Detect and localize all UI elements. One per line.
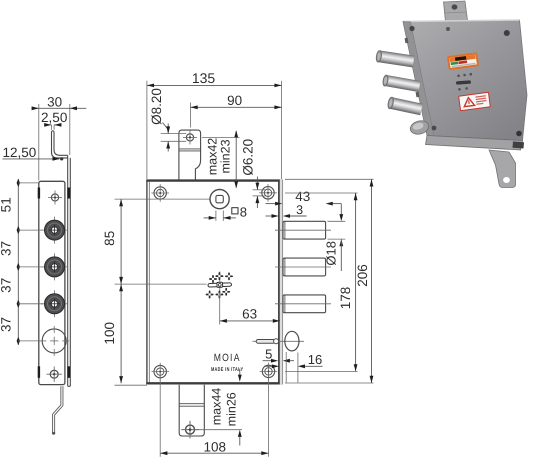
svg-text:135: 135: [192, 70, 216, 86]
svg-text:8: 8: [240, 205, 247, 220]
svg-text:12,50: 12,50: [3, 145, 37, 160]
svg-text:16: 16: [308, 352, 322, 367]
svg-text:min26: min26: [224, 392, 238, 426]
svg-text:Ø6.20: Ø6.20: [240, 139, 255, 176]
svg-text:37: 37: [0, 317, 13, 332]
svg-text:178: 178: [338, 287, 353, 310]
svg-text:2,50: 2,50: [41, 110, 67, 125]
svg-text:37: 37: [0, 278, 13, 293]
svg-text:Ø8.20: Ø8.20: [149, 88, 164, 125]
svg-text:Ø18: Ø18: [324, 241, 339, 266]
svg-text:85: 85: [102, 231, 117, 246]
svg-text:min23: min23: [218, 139, 232, 173]
svg-text:max42: max42: [205, 138, 219, 176]
svg-text:108: 108: [204, 439, 227, 454]
svg-text:MADE IN ITALY: MADE IN ITALY: [211, 367, 244, 373]
svg-text:100: 100: [102, 322, 117, 345]
svg-text:3: 3: [296, 203, 303, 217]
svg-text:MOIA: MOIA: [214, 352, 241, 364]
svg-text:63: 63: [242, 306, 257, 321]
svg-text:37: 37: [0, 241, 13, 256]
svg-text:51: 51: [0, 197, 13, 212]
svg-text:206: 206: [355, 264, 370, 287]
svg-text:90: 90: [227, 93, 242, 108]
svg-text:max44: max44: [209, 388, 223, 426]
svg-text:30: 30: [47, 94, 62, 109]
